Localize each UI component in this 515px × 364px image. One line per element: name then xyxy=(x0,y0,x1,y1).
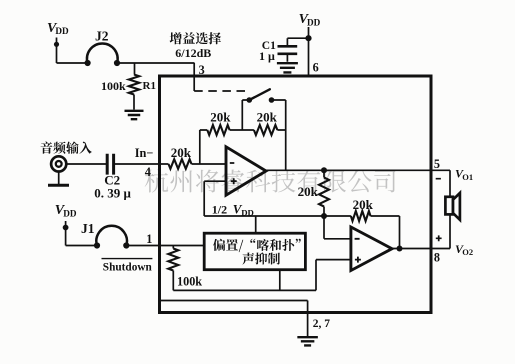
svg-text:0. 39 μ: 0. 39 μ xyxy=(94,186,131,201)
svg-text:20k: 20k xyxy=(353,197,374,212)
svg-text:8: 8 xyxy=(434,250,440,264)
svg-text:R1: R1 xyxy=(143,80,156,92)
svg-text:DD: DD xyxy=(307,18,321,28)
svg-text:DD: DD xyxy=(55,26,69,36)
svg-text:4: 4 xyxy=(145,165,151,179)
svg-text:In−: In− xyxy=(135,146,154,160)
svg-text:DD: DD xyxy=(241,208,254,218)
svg-text:2, 7: 2, 7 xyxy=(313,318,331,330)
svg-text:6/12dB: 6/12dB xyxy=(175,46,211,60)
svg-text:20k: 20k xyxy=(298,184,319,199)
svg-text:J1: J1 xyxy=(81,221,95,236)
svg-text:J2: J2 xyxy=(95,29,109,44)
svg-text:100k: 100k xyxy=(101,79,126,93)
svg-text:5: 5 xyxy=(434,157,440,171)
svg-text:6: 6 xyxy=(313,60,319,74)
svg-text:100k: 100k xyxy=(177,275,202,289)
svg-text:20k: 20k xyxy=(210,110,231,125)
svg-text:DD: DD xyxy=(63,208,77,218)
svg-text:1/2: 1/2 xyxy=(212,202,227,216)
svg-text:Shutdown: Shutdown xyxy=(103,262,153,274)
svg-text:3: 3 xyxy=(199,63,205,77)
svg-text:1: 1 xyxy=(146,232,152,246)
svg-text:1 μ: 1 μ xyxy=(259,49,275,63)
svg-text:20k: 20k xyxy=(257,110,278,125)
svg-text:O2: O2 xyxy=(462,247,473,257)
svg-text:O1: O1 xyxy=(462,172,473,182)
svg-text:20k: 20k xyxy=(171,145,192,160)
